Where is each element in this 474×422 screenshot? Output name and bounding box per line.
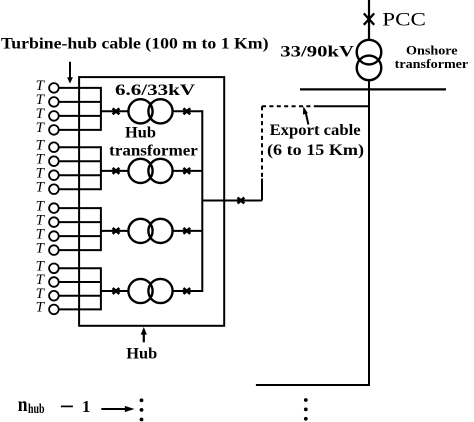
hub transformer 1 (two overlapping circles) [128, 99, 172, 123]
hub transformer 2 (two overlapping circles) [128, 159, 172, 183]
svg-text:T: T [36, 120, 46, 136]
wire bracket to hub transformer 1 [101, 110, 128, 112]
turbine T10: label, terminal circle, wire to collector bracket [36, 212, 101, 228]
svg-text:hub: hub [28, 402, 45, 417]
svg-text:T: T [36, 300, 46, 316]
hub export wire [202, 200, 262, 202]
breaker X on LV side of hub transformer 3 [113, 228, 120, 234]
svg-text:transformer: transformer [109, 142, 198, 159]
breaker X on HV side of hub transformer 1 [183, 108, 190, 114]
annotation arrow to export cable [303, 106, 309, 124]
bracket bus for turbine group 4 [100, 267, 102, 310]
svg-text:PCC: PCC [382, 11, 426, 31]
turbine T3: label, terminal circle, wire to collector bracket [36, 106, 101, 122]
wire hub transformer 4 to collector bus [173, 290, 203, 292]
svg-text:Export cable: Export cable [270, 122, 361, 139]
turbine T8: label, terminal circle, wire to collector bracket [36, 179, 101, 195]
breaker X on LV side of hub transformer 4 [113, 288, 120, 294]
wire hub transformer 2 to collector bus [173, 170, 203, 172]
PCC X marker [364, 13, 374, 24]
turbine T9: label, terminal circle, wire to collector bracket [36, 198, 101, 214]
export cable horizontal (solid) to onshore feeder [317, 105, 369, 107]
turbine T2: label, terminal circle, wire to collector bracket [36, 92, 101, 108]
hub transformer 3 (two overlapping circles) [128, 219, 172, 243]
bracket bus for turbine group 2 [100, 146, 102, 190]
turbine T12: label, terminal circle, wire to collector bracket [36, 240, 101, 256]
export cable horizontal (dashed) [262, 105, 317, 107]
hub transformer 4 (two overlapping circles) [128, 279, 172, 303]
breaker X on LV side of hub transformer 1 [113, 108, 120, 114]
turbine T15: label, terminal circle, wire to collector bracket [36, 286, 101, 302]
wire bracket to hub transformer 2 [101, 170, 128, 172]
svg-text:33/90kV: 33/90kV [280, 43, 355, 60]
annotation arrow to hub [141, 327, 147, 342]
svg-text:T: T [36, 179, 46, 195]
wire bracket to hub transformer 3 [101, 230, 128, 232]
svg-text:Hub: Hub [126, 345, 157, 362]
collector bus inside hub [201, 110, 203, 292]
bracket bus for turbine group 1 [100, 87, 102, 131]
turbine T13: label, terminal circle, wire to collector bracket [36, 259, 101, 275]
label: n_hub - 1 [18, 392, 91, 417]
turbine T4: label, terminal circle, wire to collector bracket [36, 120, 101, 136]
svg-text:Turbine-hub cable (100 m to 1: Turbine-hub cable (100 m to 1 Km) [1, 36, 269, 53]
wire hub transformer 3 to collector bus [173, 230, 203, 232]
onshore transformer U-onshore (two overlapping circles) [357, 40, 382, 80]
breaker X on LV side of hub transformer 2 [113, 168, 120, 174]
turbine T14: label, terminal circle, wire to collector bracket [36, 272, 101, 288]
bracket bus for turbine group 3 [100, 207, 102, 251]
svg-text:(6 to 15 Km): (6 to 15 Km) [267, 142, 364, 159]
breaker X on HV side of hub transformer 3 [183, 228, 190, 234]
turbine T7: label, terminal circle, wire to collector bracket [36, 165, 101, 181]
wire hub transformer 1 to collector bus [173, 110, 203, 112]
onshore busbar [300, 88, 446, 90]
wire bracket to hub transformer 4 [101, 290, 128, 292]
onshore feeder vertical + bottom stub to other hubs [256, 80, 369, 385]
svg-text:1: 1 [82, 397, 90, 416]
annotation arrow to turbine-hub cable [67, 62, 73, 84]
svg-text:n: n [18, 392, 28, 416]
turbine T6: label, terminal circle, wire to collector bracket [36, 151, 101, 167]
svg-text:T: T [36, 240, 46, 256]
onshore feeder vertical line (top, to PCC) [368, 0, 370, 40]
arrow n_hub-1 to repeated hubs [101, 406, 134, 412]
svg-text:transformer: transformer [395, 57, 469, 71]
export cable riser (dashed) [261, 106, 263, 178]
turbine T11: label, terminal circle, wire to collector bracket [36, 226, 101, 242]
breaker X on HV side of hub transformer 4 [183, 288, 190, 294]
vertical dots: repeated hub feeders (right) [304, 398, 308, 421]
breaker X on hub export wire [238, 198, 245, 204]
turbine T16: label, terminal circle, wire to collector bracket [36, 300, 101, 316]
breaker X on HV side of hub transformer 2 [183, 168, 190, 174]
hub enclosure rectangle [79, 77, 224, 326]
turbine T1: label, terminal circle, wire to collector bracket [36, 78, 101, 94]
svg-text:Onshore: Onshore [406, 44, 458, 58]
svg-text:Hub: Hub [125, 125, 156, 142]
export cable riser (solid stub) [261, 179, 263, 201]
turbine T5: label, terminal circle, wire to collector bracket [36, 137, 101, 153]
vertical dots: repeated hubs (left) [140, 398, 144, 421]
svg-text:6.6/33kV: 6.6/33kV [115, 82, 196, 99]
